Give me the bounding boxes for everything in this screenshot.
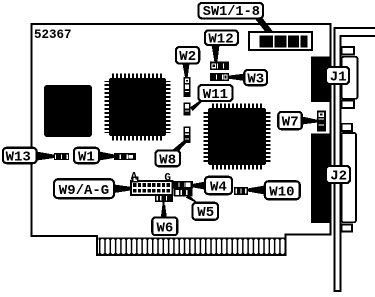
jumper W13 (horizontal 3-pos) (54, 153, 69, 160)
svg-text:W5: W5 (197, 205, 214, 221)
label W13 (3, 148, 37, 166)
pointer tail W9/A-G (114, 185, 131, 194)
label W4 (205, 177, 232, 196)
label W1 (74, 148, 99, 166)
svg-text:A: A (131, 172, 138, 184)
pointer tail W7 (302, 117, 317, 125)
label W9/A-G (54, 179, 114, 199)
svg-text:SW1/1-8: SW1/1-8 (203, 5, 260, 20)
card outline top edge (31, 23, 331, 25)
bracket strip right+tab bottom line (341, 36, 375, 291)
header W9/A-G (2x8 block) (131, 181, 173, 195)
jumper W3 (horizontal 3-pos) (210, 73, 229, 81)
pointer tail W4 (193, 182, 206, 190)
jumper W7 (vertical 3-pos) (317, 111, 326, 132)
svg-text:W8: W8 (159, 152, 176, 168)
svg-text:W3: W3 (247, 71, 264, 87)
label W5 (193, 203, 219, 221)
pointer tail SW1 (254, 18, 273, 33)
svg-text:W2: W2 (179, 49, 196, 65)
svg-text:W12: W12 (208, 32, 233, 48)
D-sub J1 face (342, 57, 358, 99)
label W10 (265, 181, 300, 200)
jumper W11 (vertical 2-pos) (184, 103, 191, 116)
edge connector bottom bar (96, 254, 287, 256)
svg-text:W9/A-G: W9/A-G (59, 183, 109, 199)
pointer tail W6 (161, 205, 167, 218)
card outline bottom-left edge (31, 235, 99, 237)
svg-text:W11: W11 (203, 87, 228, 103)
chip U1 (plain square) (44, 85, 92, 137)
svg-text:J2: J2 (330, 169, 347, 185)
D-sub J1 top screw post (342, 47, 355, 55)
svg-text:J1: J1 (330, 70, 347, 86)
label W2 (176, 47, 199, 65)
pointer tail W12 (212, 45, 220, 62)
label W8 (156, 151, 181, 169)
pin-1 marker above header (133, 177, 138, 181)
pointer tail W11 (190, 98, 207, 112)
header W4/W5 block (172, 181, 193, 197)
pointer tail W1 (99, 152, 114, 161)
edge connector fingers (99, 237, 285, 254)
D-sub J2 top screw post (342, 124, 353, 131)
connector J1 body on card (311, 57, 332, 103)
pointer tail W3 (229, 74, 245, 82)
svg-text:W10: W10 (269, 185, 294, 201)
card outline right edge (329, 23, 331, 236)
pointer tail W10 (248, 186, 265, 195)
label SW1/1-8 (199, 3, 264, 20)
pointer tail W8 (171, 141, 187, 154)
svg-text:G: G (164, 172, 171, 184)
wire from W6 jumper down to label (163, 202, 165, 218)
svg-text:W13: W13 (6, 149, 31, 165)
label J1 (326, 67, 349, 86)
label W7 (278, 112, 302, 131)
D-sub J2 face (342, 133, 357, 222)
chip U3 (QFP with pins) (204, 104, 271, 170)
card outline step up right of edge connector (284, 233, 286, 256)
label W12 (205, 30, 238, 47)
bracket strip left+top tab line (335, 28, 375, 291)
card outline bottom-right edge (284, 233, 331, 235)
D-sub J1 bottom screw post (342, 101, 355, 109)
label W11 (199, 85, 233, 103)
pointer tail W2 (183, 64, 190, 77)
jumper W8 (vertical 3-pos) (184, 127, 191, 144)
label W6 (152, 218, 177, 237)
jumper W6 (horizontal 3-pos) (155, 195, 173, 202)
card outline left edge (31, 23, 33, 237)
pointer tail W5 (186, 195, 203, 206)
jumper W2 (vertical 3-pos) (184, 77, 191, 97)
jumper W4 (horizontal 2-pos) (234, 187, 248, 195)
svg-text:W7: W7 (282, 115, 299, 131)
card outline step down left of edge connector (96, 235, 98, 256)
svg-text:W6: W6 (157, 220, 174, 236)
jumper W12 (horizontal 3-pos) (210, 62, 229, 70)
jumper W1 (horizontal 3-pos) (114, 153, 136, 160)
DIP switch SW1 (249, 32, 312, 50)
chip U2 (QFP with pins) (105, 74, 171, 141)
bracket bottom cap (333, 290, 341, 292)
label W3 (244, 70, 267, 87)
connector J2 body on card (311, 134, 332, 224)
svg-text:52367: 52367 (34, 28, 72, 42)
label J2 (326, 166, 350, 185)
svg-text:W4: W4 (210, 180, 227, 196)
pointer tail W13 (37, 152, 55, 161)
svg-text:W1: W1 (78, 149, 95, 165)
D-sub J2 bottom screw post (342, 224, 353, 231)
